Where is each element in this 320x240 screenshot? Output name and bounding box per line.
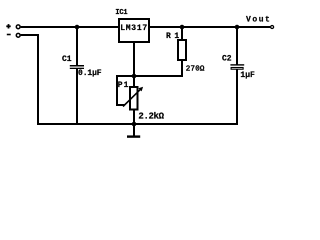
label - (negative input) xyxy=(7,34,11,36)
wire top rail left: + terminal to IC1 pin xyxy=(21,26,118,28)
wire P1 top lead xyxy=(133,76,135,87)
wire C2 bottom lead xyxy=(236,70,238,126)
wire adj junction to R1 bottom xyxy=(133,75,183,77)
negative input terminal circle xyxy=(16,33,20,37)
wire negative input vertical down to bottom rail xyxy=(37,34,39,125)
svg-text:IC1: IC1 xyxy=(115,9,127,17)
node junction ground xyxy=(132,122,137,127)
node junction C1 top xyxy=(75,25,80,30)
svg-text:C1: C1 xyxy=(62,55,72,64)
svg-text:P1: P1 xyxy=(118,81,130,90)
svg-text:0.1µF: 0.1µF xyxy=(78,69,102,78)
wire negative input horizontal xyxy=(21,34,38,36)
wire C1 bottom lead xyxy=(76,69,78,125)
node junction ADJ xyxy=(132,74,137,79)
potentiometer P1 body xyxy=(130,87,138,110)
wire C2 top lead xyxy=(236,26,238,65)
wire R1 top lead xyxy=(181,26,183,40)
svg-text:1µF: 1µF xyxy=(240,71,255,80)
wire IC1 adj pin down xyxy=(133,41,135,77)
svg-text:270Ω: 270Ω xyxy=(186,65,205,73)
wire P1 bottom lead xyxy=(133,109,135,124)
svg-text:Vout: Vout xyxy=(246,15,271,24)
wire C1 top lead xyxy=(76,26,78,66)
wire bottom rail (ground rail) xyxy=(37,123,238,125)
capacitor C1 xyxy=(70,65,84,69)
capacitor C2 positive plate xyxy=(230,64,244,65)
resistor R1 body xyxy=(178,40,186,60)
node junction C2 top xyxy=(235,25,240,30)
svg-text:R1: R1 xyxy=(166,32,183,41)
wire P1 wiper loop top (adj junction going left) xyxy=(116,75,134,77)
wire R1 bottom lead xyxy=(181,60,183,76)
positive input terminal circle xyxy=(16,25,20,29)
output terminal circle Vout xyxy=(271,26,274,29)
svg-text:LM317: LM317 xyxy=(120,24,148,33)
wire top rail right: IC1 out to Vout xyxy=(150,26,270,28)
wire P1 wiper loop bottom horizontal xyxy=(116,104,125,106)
label + (positive input) xyxy=(6,24,10,28)
ground symbol xyxy=(127,124,140,138)
svg-text:C2: C2 xyxy=(222,54,232,63)
wire P1 wiper loop left vertical xyxy=(116,75,118,106)
IC U1: IC1 LM317 regulator box xyxy=(119,19,149,42)
potentiometer P1 wiper arrow xyxy=(123,87,143,107)
svg-text:2.2kΩ: 2.2kΩ xyxy=(138,111,164,121)
capacitor C2 negative plate (open box, electrolytic) xyxy=(231,68,243,70)
node junction R1 top xyxy=(180,25,185,30)
